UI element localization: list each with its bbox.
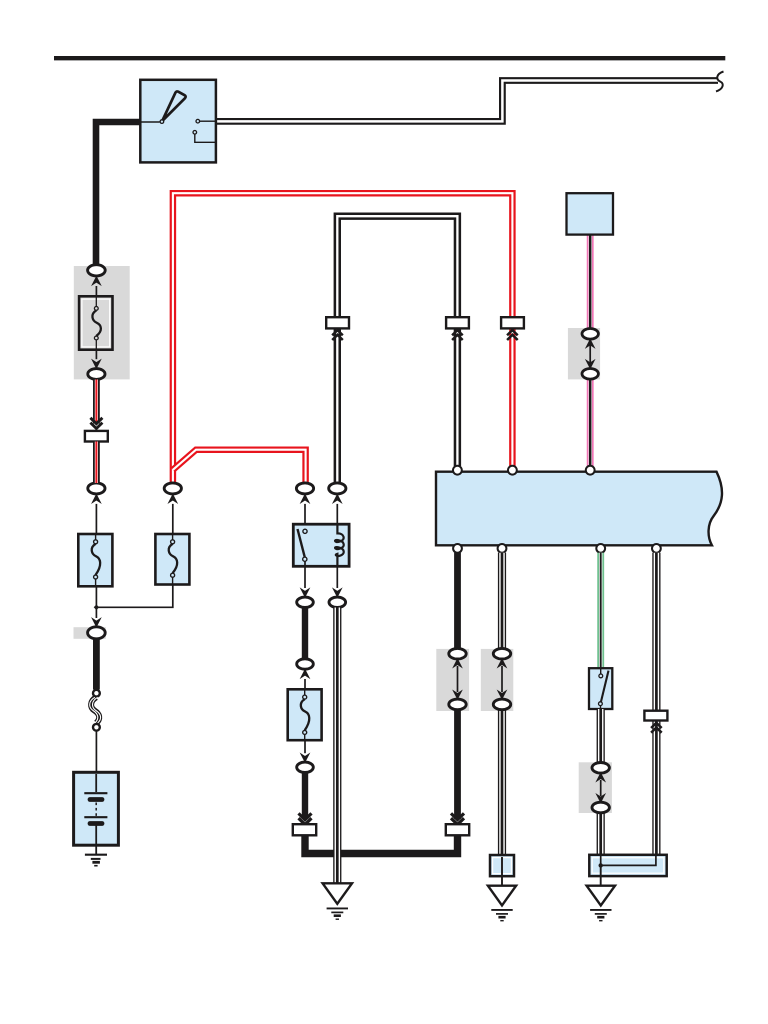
wire: relay switch to connector — [304, 566, 306, 588]
node A4 (relay coil column) — [329, 483, 346, 535]
wire: F1 down to splice — [95, 586, 97, 618]
wire: thick black relay to fuse connector — [302, 608, 308, 660]
chevron plug on thick wire — [451, 813, 464, 824]
right contact to output — [196, 119, 200, 123]
switch lever — [162, 91, 185, 121]
continuation squiggle at wire end — [716, 72, 724, 92]
wire: thick black ground link horizontal — [305, 835, 458, 854]
wire: black double from connector to ECU pin — [454, 328, 461, 466]
junction node at splice — [94, 605, 99, 611]
connector plug P7 — [85, 431, 108, 442]
wire: thick battery feed to ignition switch — [96, 122, 140, 267]
gray highlight connector pair C1 (wire ECU pin1) — [436, 649, 469, 711]
wire: thick black ECU pin1 down to connector pair C1 — [454, 553, 461, 650]
wire: W-B striped below C2 to box — [498, 709, 506, 856]
connector pair C2 ovals and arrows — [493, 648, 510, 709]
wire: W-B striped below C3 to ground box — [597, 813, 605, 857]
left column: connector oval above fusible link — [88, 265, 106, 297]
fusible link FL box — [79, 296, 112, 349]
connector plug P3 (red loop right leg) — [501, 317, 524, 328]
node A3 (relay switch column) — [296, 483, 313, 529]
ground triangle G1 — [323, 883, 352, 904]
pivot contact — [140, 121, 160, 123]
connector below fusible link — [88, 350, 105, 380]
gray highlight connector pair C4 (pink wire) — [568, 328, 600, 379]
connector pair C3 ovals and arrows — [592, 763, 609, 813]
switch box SW2 — [589, 668, 612, 709]
wire: W-B striped relay coil down to ground triangle — [333, 608, 341, 884]
connector pair C4 ovals and arrows — [582, 329, 598, 380]
wire: red double loop — [173, 193, 513, 483]
node A1 (left fusible column) — [88, 483, 105, 535]
ECU box U1 (large, torn right edge) — [436, 472, 722, 546]
ignition switch SW1 box — [140, 80, 216, 163]
shielded / twisted section — [90, 690, 101, 731]
connector plug P4 — [446, 824, 469, 835]
node A2 (fuse 2 column) — [164, 483, 181, 535]
top rule — [54, 56, 725, 60]
relay coil — [335, 524, 344, 566]
wire: F2 down and left to splice — [96, 585, 172, 608]
wire: thick black below C1 to plug — [454, 709, 461, 819]
wire: B-R striped below fusible link — [93, 380, 100, 424]
battery ground — [95, 845, 97, 855]
wire: thick black to plug and ground link — [302, 773, 308, 820]
fuse F3 box — [288, 689, 322, 740]
ground triangle G2 — [488, 886, 516, 906]
connector pair C1 ovals and arrows — [449, 648, 466, 709]
lower spare contact — [193, 131, 197, 135]
relay K1 box — [293, 524, 349, 566]
ECU bottom pin terminals — [453, 544, 462, 553]
gray highlight connector pair C3 (switch wire) — [579, 762, 612, 813]
wire: W-B striped plug down to ground box — [652, 721, 660, 857]
wire: W-B striped ECU pin4 down to plug — [652, 553, 660, 711]
fuse F2 box — [155, 534, 189, 585]
wire: pink/black striped from connector to ECU pin — [587, 379, 594, 467]
wire: green/black striped ECU pin3 to switch box — [597, 553, 604, 669]
wire: double line from ignition switch to top right (with jog) — [216, 81, 718, 122]
ground triangle G3 — [587, 886, 615, 906]
connector plug P2 (black loop right leg) — [446, 317, 469, 328]
wire: black double loop — [337, 216, 457, 483]
relay contact switch — [303, 529, 307, 533]
connector plug P6 — [293, 824, 316, 835]
sensor box U2 (top right) — [567, 193, 614, 234]
wire: W-B striped switch box to connector pair C3 — [597, 709, 605, 763]
wire: relay coil to connector — [336, 566, 338, 588]
ground point box G3 (wide) — [589, 855, 666, 876]
gray highlight band at splice node — [74, 627, 106, 639]
junction node in G3 — [599, 863, 603, 867]
wire: red branch to relay — [173, 450, 306, 483]
connector plug P5 — [644, 711, 667, 721]
fuse F1 box — [78, 534, 112, 586]
splice connector oval — [92, 618, 101, 626]
battery BAT box — [74, 772, 119, 845]
wire: pink/black striped from sensor box to connector — [587, 235, 594, 330]
ECU top pin terminals — [453, 466, 462, 475]
wire: fuse F3 to connector — [304, 740, 306, 753]
wire: to battery — [95, 731, 97, 773]
gray highlight connector pair C2 (wire ECU pin2) — [481, 649, 514, 711]
ground point box G2 — [490, 855, 514, 876]
wire: W-B striped ECU pin2 down to connector pair C2 — [498, 553, 506, 650]
wire: thick black splice to shielded section — [93, 639, 100, 690]
wire: B-R striped to node A1 — [93, 442, 100, 484]
wire: red double from connector to ECU pin — [509, 328, 516, 466]
connector plug P1 (black loop left leg) — [326, 317, 349, 328]
chevron plug on B-R wire — [90, 418, 102, 429]
gray highlight behind fusible link FL — [74, 266, 130, 379]
